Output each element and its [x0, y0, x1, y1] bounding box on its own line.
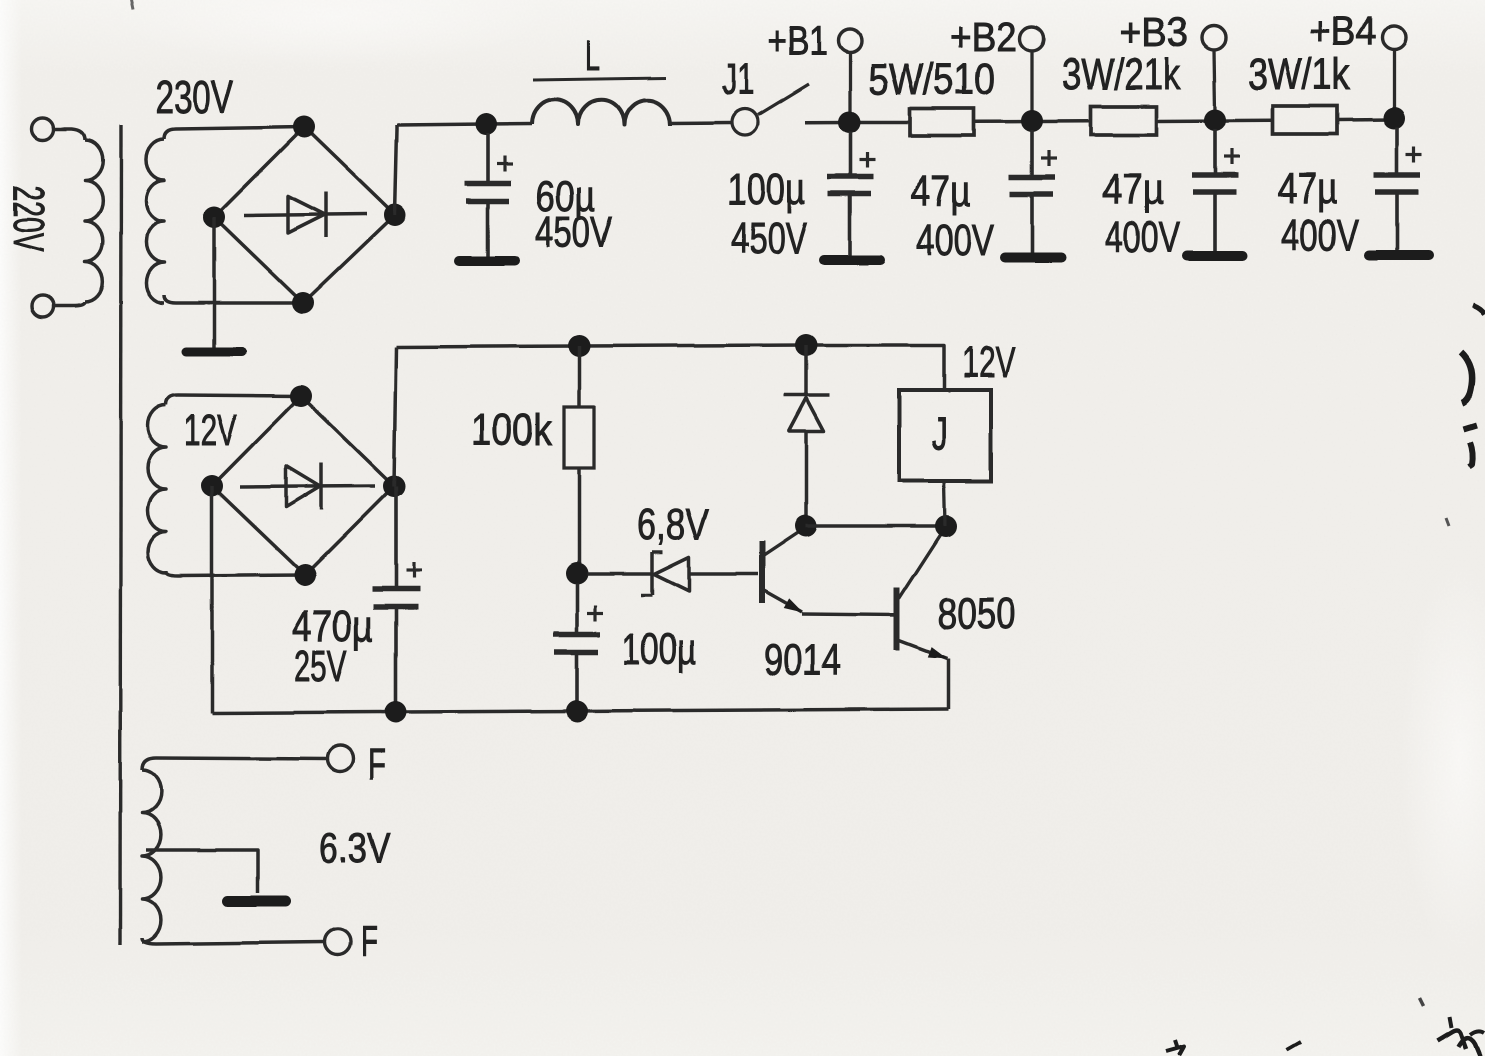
- wire: diode node to relay node: [806, 524, 946, 528]
- label 47u (C2): [911, 167, 971, 216]
- label 400V (C4): [1281, 211, 1359, 260]
- svg-text:12V: 12V: [962, 338, 1015, 387]
- label J (relay): [932, 407, 948, 459]
- svg-text:47µ: 47µ: [911, 167, 971, 216]
- svg-text:400V: 400V: [916, 216, 994, 265]
- transformer secondary winding S1 230V: [146, 127, 304, 303]
- transformer primary winding P1 (two terminals, coil): [32, 118, 103, 317]
- bridge rectifier B2 outline: [212, 396, 394, 575]
- svg-text:3W/21k: 3W/21k: [1062, 50, 1181, 99]
- capacitor C3 47u/400V: [1192, 129, 1240, 252]
- diode inside bridge B1: [244, 192, 367, 237]
- transistor Q1 9014: [762, 528, 896, 615]
- node: rail/diode junction: [795, 334, 817, 356]
- svg-text:400V: 400V: [1105, 213, 1180, 262]
- svg-text:F: F: [361, 917, 378, 966]
- transformer core: [120, 125, 121, 945]
- label L: [533, 32, 666, 80]
- ground (C2): [1005, 253, 1061, 263]
- node: bridge B2 right vertex: [383, 475, 405, 497]
- label 400V (C2): [916, 216, 994, 265]
- node: rail/C6 junction: [566, 700, 588, 722]
- transformer secondary winding S3 6.3V: [142, 758, 327, 944]
- svg-text:+B3: +B3: [1119, 9, 1188, 55]
- label 6.3V: [319, 824, 390, 871]
- zener diode ZD 6.8V: [587, 552, 758, 595]
- label 6,8V: [637, 500, 710, 549]
- svg-text:+B2: +B2: [950, 14, 1017, 60]
- resistor R2 3W/21k: [1091, 107, 1156, 136]
- label J1: [722, 55, 754, 104]
- label +B3: [1119, 9, 1188, 55]
- capacitor C2 47u/400V: [1009, 130, 1057, 254]
- node: diode/collector junction: [795, 515, 817, 537]
- svg-text:400V: 400V: [1281, 211, 1359, 260]
- svg-text:8050: 8050: [937, 589, 1016, 638]
- label 3W/21k: [1062, 50, 1181, 99]
- wire: bridge B1 left vertex to ground: [212, 217, 216, 349]
- node +B3 junction: [1204, 109, 1226, 131]
- label 12V (winding): [184, 406, 237, 455]
- label 100k: [471, 406, 553, 455]
- label 400V (C3): [1105, 213, 1180, 262]
- node: bridge B2 left vertex: [201, 475, 223, 497]
- label 450V (C0): [535, 208, 612, 257]
- label 5W/510: [868, 55, 995, 104]
- node Z (zener/cap junction): [566, 562, 588, 584]
- node A (60u cap junction): [475, 113, 497, 135]
- label 12V (relay supply): [962, 338, 1015, 387]
- svg-text:6,8V: 6,8V: [637, 500, 710, 549]
- wire: R4 to node Z: [577, 468, 581, 573]
- inductor L (filter choke): [532, 99, 670, 125]
- wire: bridge B2 right vertex up to +12V rail: [394, 347, 396, 486]
- terminal F (top): [327, 740, 386, 789]
- center-tap wire of 6.3V winding: [146, 850, 258, 893]
- wire: +12V top rail: [396, 345, 944, 390]
- wire: R3 to node B4: [1337, 118, 1394, 122]
- node: bridge B2 bottom vertex: [294, 564, 316, 586]
- diode D5 (relay flyback): [784, 345, 830, 526]
- ground (C4): [1369, 250, 1429, 260]
- node: bridge B1 right vertex: [384, 204, 406, 226]
- svg-text:3W/1k: 3W/1k: [1248, 50, 1351, 99]
- switch J1: [732, 84, 809, 135]
- terminal +B2: [1020, 27, 1044, 112]
- label 3W/1k: [1248, 50, 1351, 99]
- svg-text:47µ: 47µ: [1102, 165, 1164, 214]
- node: bridge B2 top vertex: [290, 385, 312, 407]
- svg-text:25V: 25V: [294, 642, 347, 691]
- wire: switch to node B1: [805, 120, 910, 124]
- svg-text:100µ: 100µ: [727, 165, 805, 214]
- resistor R1 5W/510: [910, 109, 974, 136]
- svg-text:5W/510: 5W/510: [868, 55, 995, 104]
- capacitor C1 100u/450V: [827, 131, 875, 256]
- label 8050: [937, 589, 1016, 638]
- label 100u (C6): [622, 625, 696, 674]
- label 60u: [535, 172, 595, 221]
- node: rail/C5 junction: [385, 701, 407, 723]
- svg-text:450V: 450V: [535, 208, 612, 257]
- ground (6.3V center tap): [228, 896, 286, 907]
- label 470u: [292, 602, 373, 651]
- transformer secondary winding S2 12V: [148, 395, 305, 576]
- node: relay/collector junction: [935, 515, 957, 537]
- svg-text:230V: 230V: [155, 71, 233, 123]
- resistor R4 100k: [564, 407, 594, 468]
- wire: inductor to switch J1: [670, 121, 731, 125]
- label +B4: [1309, 8, 1376, 54]
- terminal +B4: [1382, 26, 1406, 110]
- wire: R2 to node B3: [1156, 119, 1273, 123]
- label +B2: [950, 14, 1017, 60]
- node: bridge B1 top vertex: [293, 116, 315, 138]
- diode inside bridge B2: [240, 463, 375, 510]
- label +B1: [768, 18, 828, 64]
- svg-text:6.3V: 6.3V: [319, 824, 390, 871]
- svg-text:450V: 450V: [731, 214, 807, 263]
- ground (C0): [459, 256, 515, 266]
- svg-text:100k: 100k: [471, 406, 553, 455]
- svg-text:12V: 12V: [184, 406, 237, 455]
- capacitor C5 470u/25V: [372, 486, 422, 711]
- ground (bridge B1 negative): [186, 348, 242, 357]
- wire: 0V bottom rail: [212, 709, 948, 713]
- label 25V: [294, 642, 347, 691]
- resistor R3 3W/1k: [1273, 106, 1337, 134]
- label 450V (C1): [731, 214, 807, 263]
- node: bridge B1 left vertex: [203, 206, 225, 228]
- svg-text:100µ: 100µ: [622, 625, 696, 674]
- relay coil J 12V: [899, 390, 991, 526]
- node: bridge B1 bottom vertex: [292, 292, 314, 314]
- capacitor C6 100u: [554, 583, 604, 710]
- label 100u: [727, 165, 805, 214]
- node +B2 junction: [1021, 110, 1043, 132]
- svg-text:47µ: 47µ: [1277, 164, 1338, 213]
- wire: bridge B1 output up to HT bus: [395, 125, 397, 215]
- label 9014: [764, 636, 841, 685]
- wire: bridge B2 left vertex down to 0V rail: [210, 486, 214, 713]
- node: rail/100k junction: [568, 335, 590, 357]
- terminal +B1: [839, 30, 862, 114]
- label 230V: [155, 71, 233, 123]
- label 220V: [4, 185, 53, 252]
- terminal F (bottom): [325, 917, 378, 966]
- ground (C3): [1187, 251, 1243, 261]
- svg-text:9014: 9014: [764, 636, 841, 685]
- terminal +B3: [1202, 26, 1226, 111]
- wire: HT bus segment bridge to inductor: [397, 124, 532, 126]
- svg-text:J1: J1: [722, 55, 754, 104]
- label 47u (C3): [1102, 165, 1164, 214]
- svg-text:J: J: [932, 407, 948, 459]
- svg-text:220V: 220V: [4, 185, 53, 252]
- svg-text:F: F: [368, 740, 386, 789]
- transistor Q2 8050: [897, 528, 948, 709]
- label 47u (C4): [1277, 164, 1338, 213]
- wire: rail to R4: [577, 346, 581, 407]
- capacitor C4 47u/400V: [1374, 127, 1422, 251]
- ground (C1): [824, 255, 880, 265]
- capacitor C0 60u/450V: [465, 133, 513, 257]
- svg-text:L: L: [585, 32, 600, 79]
- wire: R1 to node B2: [974, 120, 1091, 124]
- node +B1 junction: [838, 111, 860, 133]
- svg-text:+B1: +B1: [768, 18, 828, 64]
- svg-text:+B4: +B4: [1309, 8, 1376, 54]
- node +B4 junction: [1383, 107, 1405, 129]
- bridge rectifier B1 outline: [214, 127, 395, 303]
